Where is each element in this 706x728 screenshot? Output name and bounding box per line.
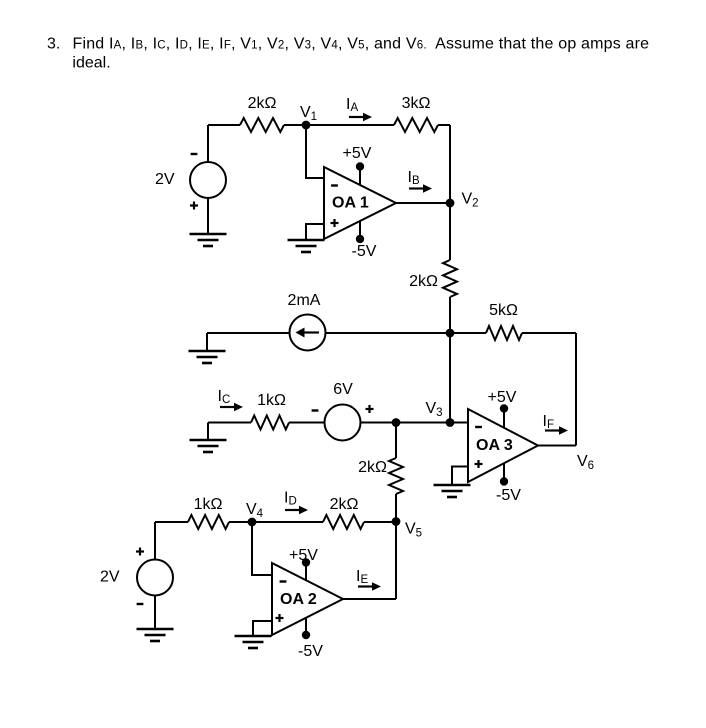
- wire OA3 output: [538, 445, 576, 447]
- resistor R 2k top: [240, 118, 284, 132]
- label 2mA: [288, 292, 321, 309]
- opamp OA1 minus input sign: [331, 184, 338, 186]
- wire top rail mid: [284, 124, 394, 126]
- arrow IC: [220, 403, 243, 412]
- wire 5k to right drop: [522, 332, 576, 334]
- polarity minus VS2: [312, 409, 319, 411]
- wire top rail right: [438, 124, 450, 126]
- ground G5: [434, 485, 471, 497]
- label IE: [356, 568, 368, 586]
- supply +5V OA3 stem: [500, 404, 508, 428]
- resistor R 1k bottom: [188, 515, 229, 529]
- wire V4 to OA2 inverting input: [252, 522, 272, 575]
- svg-text:V3: V3: [426, 400, 443, 419]
- arrow inside 2mA source: [296, 328, 320, 338]
- wire V4 to 2k: [252, 521, 323, 523]
- node V5: [392, 517, 401, 526]
- svg-text:IE: IE: [356, 568, 368, 586]
- label IB: [408, 169, 420, 187]
- wire right drop to V6: [575, 333, 577, 446]
- wire 1k to 6V: [289, 422, 325, 424]
- label 6V: [333, 381, 353, 398]
- wire 2mA right: [326, 332, 451, 334]
- ground G6: [235, 636, 272, 648]
- svg-text:2kΩ: 2kΩ: [330, 496, 359, 513]
- op-amp U1 OA1 triangle: [324, 167, 396, 239]
- wire bottom 2V to 1k: [155, 521, 188, 523]
- wire top rail left: [208, 124, 240, 126]
- label V3: [426, 400, 443, 419]
- node junction J2 above 2k: [392, 418, 401, 427]
- label IF: [543, 413, 554, 431]
- wire OA2 output up to V5: [395, 522, 397, 600]
- source VS3 2V: [137, 560, 173, 596]
- wire OA3 noninverting to ground: [452, 467, 468, 486]
- node V2: [446, 199, 455, 208]
- svg-text:IA: IA: [346, 96, 358, 114]
- label OA3: [476, 437, 513, 454]
- label IA: [346, 96, 358, 114]
- ground G3: [189, 351, 226, 363]
- svg-text:+5V: +5V: [488, 389, 517, 406]
- label +5V OA1: [343, 145, 372, 162]
- label ID: [284, 490, 297, 508]
- wire IC row ground drop: [207, 423, 209, 441]
- opamp OA3 minus input sign: [475, 426, 482, 428]
- svg-text:2V: 2V: [100, 569, 120, 586]
- ground G2: [288, 240, 325, 252]
- node V3: [446, 418, 455, 427]
- svg-text:OA 2: OA 2: [280, 591, 317, 608]
- label IC: [218, 388, 231, 406]
- opamp OA2 plus input sign: [276, 614, 284, 622]
- svg-text:1kΩ: 1kΩ: [194, 496, 223, 513]
- current source I1 2mA: [290, 315, 326, 351]
- wire OA1 noninverting to ground: [306, 224, 324, 240]
- label -5V OA3: [496, 487, 521, 504]
- label 5k: [489, 302, 518, 319]
- wire 2k to V5 column: [364, 521, 396, 523]
- label V1: [300, 104, 317, 123]
- polarity minus VS3: [137, 603, 144, 605]
- label OA1: [332, 195, 369, 212]
- wire junction to 5k: [450, 332, 486, 334]
- resistor R 1k mid: [251, 416, 289, 430]
- svg-text:3.: 3.: [47, 35, 60, 52]
- wire 6V to OA3 input: [361, 422, 469, 424]
- wire J2 to 2k vertical: [395, 423, 397, 459]
- svg-text:IB: IB: [408, 169, 420, 187]
- node junction J1: [446, 329, 455, 338]
- ground G1: [190, 234, 227, 246]
- ground G7: [137, 629, 174, 641]
- svg-text:V5: V5: [405, 521, 422, 540]
- wire OA1 output: [396, 202, 450, 204]
- label V5: [405, 521, 422, 540]
- polarity plus VS2: [366, 405, 374, 413]
- opamp OA3 plus input sign: [475, 460, 483, 468]
- wire OA2 output: [343, 598, 396, 600]
- node V1: [302, 121, 311, 130]
- label 2k bottom: [330, 496, 359, 513]
- resistor R 5k: [486, 326, 522, 340]
- arrow IE: [358, 582, 381, 591]
- svg-text:+5V: +5V: [343, 145, 372, 162]
- wire 2k vertical to V5: [395, 494, 397, 522]
- svg-text:5kΩ: 5kΩ: [489, 302, 518, 319]
- svg-text:3kΩ: 3kΩ: [402, 95, 431, 112]
- svg-text:ideal.: ideal.: [72, 55, 110, 72]
- label 1k bottom: [194, 496, 223, 513]
- source VS2 6V: [325, 405, 361, 441]
- wire VS3 to V4 row: [154, 522, 156, 560]
- wire V2 resistor to junction: [449, 297, 451, 333]
- label 1k mid: [257, 392, 286, 409]
- arrow IF: [545, 426, 568, 435]
- wire junction J1 to V3: [449, 333, 451, 423]
- label V6: [577, 453, 594, 472]
- svg-text:2V: 2V: [155, 171, 175, 188]
- supply -5V OA1 stem: [356, 221, 364, 243]
- svg-text:-5V: -5V: [352, 243, 377, 260]
- label -5V OA1: [352, 243, 377, 260]
- wire right drop to V2: [449, 125, 451, 260]
- svg-text:+5V: +5V: [289, 547, 318, 564]
- label OA2: [280, 591, 317, 608]
- wire OA2 noninverting to ground: [253, 621, 272, 636]
- svg-text:2kΩ: 2kΩ: [409, 273, 438, 290]
- svg-text:V1: V1: [300, 104, 317, 123]
- svg-text:V6: V6: [577, 453, 594, 472]
- polarity plus VS1: [190, 202, 198, 210]
- resistor R 2k bottom: [323, 515, 364, 529]
- svg-text:2mA: 2mA: [288, 292, 321, 309]
- arrow ID: [285, 506, 308, 515]
- wire VS1 to ground: [207, 198, 209, 234]
- label V2: [462, 191, 479, 210]
- problem statement title: [47, 35, 649, 71]
- svg-text:2kΩ: 2kΩ: [248, 95, 277, 112]
- svg-text:IF: IF: [543, 413, 554, 431]
- resistor R 2k vertical V2: [443, 260, 457, 297]
- node V4: [248, 518, 257, 527]
- ground G4: [190, 440, 227, 452]
- supply -5V OA3 stem: [500, 463, 508, 486]
- svg-text:6V: 6V: [333, 381, 353, 398]
- label 3k: [402, 95, 431, 112]
- label 2k vertical V5: [358, 459, 387, 476]
- label 2V bottom source: [100, 569, 120, 586]
- wire 2mA left ground drop: [206, 333, 208, 351]
- svg-text:IC: IC: [218, 388, 231, 406]
- polarity plus VS3: [136, 548, 144, 556]
- resistor R 3k top: [394, 118, 438, 132]
- op-amp U3 OA3 triangle: [468, 409, 538, 482]
- polarity minus VS1: [191, 153, 198, 155]
- svg-text:Find IA, IB, IC, ID, IE, IF, V: Find IA, IB, IC, ID, IE, IF, V1, V2, V3,…: [73, 35, 650, 52]
- svg-text:OA 3: OA 3: [476, 437, 513, 454]
- wire IC row left: [208, 422, 251, 424]
- wire source V1 drop: [207, 125, 209, 162]
- label -5V OA2: [298, 643, 323, 660]
- label +5V OA2: [289, 547, 318, 564]
- wire VS3 to ground: [154, 595, 156, 629]
- label +5V OA3: [488, 389, 517, 406]
- supply -5V OA2 stem: [302, 618, 310, 640]
- resistor R 2k vertical V5: [389, 458, 403, 494]
- svg-text:ID: ID: [284, 490, 297, 508]
- svg-text:2kΩ: 2kΩ: [358, 459, 387, 476]
- supply +5V OA2 stem: [302, 558, 310, 580]
- svg-text:1kΩ: 1kΩ: [257, 392, 286, 409]
- wire 2mA left: [207, 332, 290, 334]
- arrow IB: [409, 184, 432, 193]
- svg-text:-5V: -5V: [298, 643, 323, 660]
- source VS1 2V: [190, 162, 226, 198]
- label V4: [246, 501, 264, 520]
- svg-text:V4: V4: [246, 501, 264, 520]
- svg-text:V2: V2: [462, 191, 479, 210]
- svg-text:OA 1: OA 1: [332, 195, 369, 212]
- opamp OA1 plus input sign: [331, 219, 339, 227]
- wire 1k to V4: [229, 521, 252, 523]
- label 2k vertical V2: [409, 273, 438, 290]
- supply +5V OA1 stem: [356, 162, 364, 185]
- label 2k top: [248, 95, 277, 112]
- svg-text:-5V: -5V: [496, 487, 521, 504]
- label 2V top source: [155, 171, 175, 188]
- arrow IA: [349, 113, 372, 122]
- wire V1 to OA1 inverting input: [306, 125, 324, 178]
- opamp OA2 minus input sign: [280, 580, 287, 582]
- op-amp U2 OA2 triangle: [272, 563, 343, 635]
